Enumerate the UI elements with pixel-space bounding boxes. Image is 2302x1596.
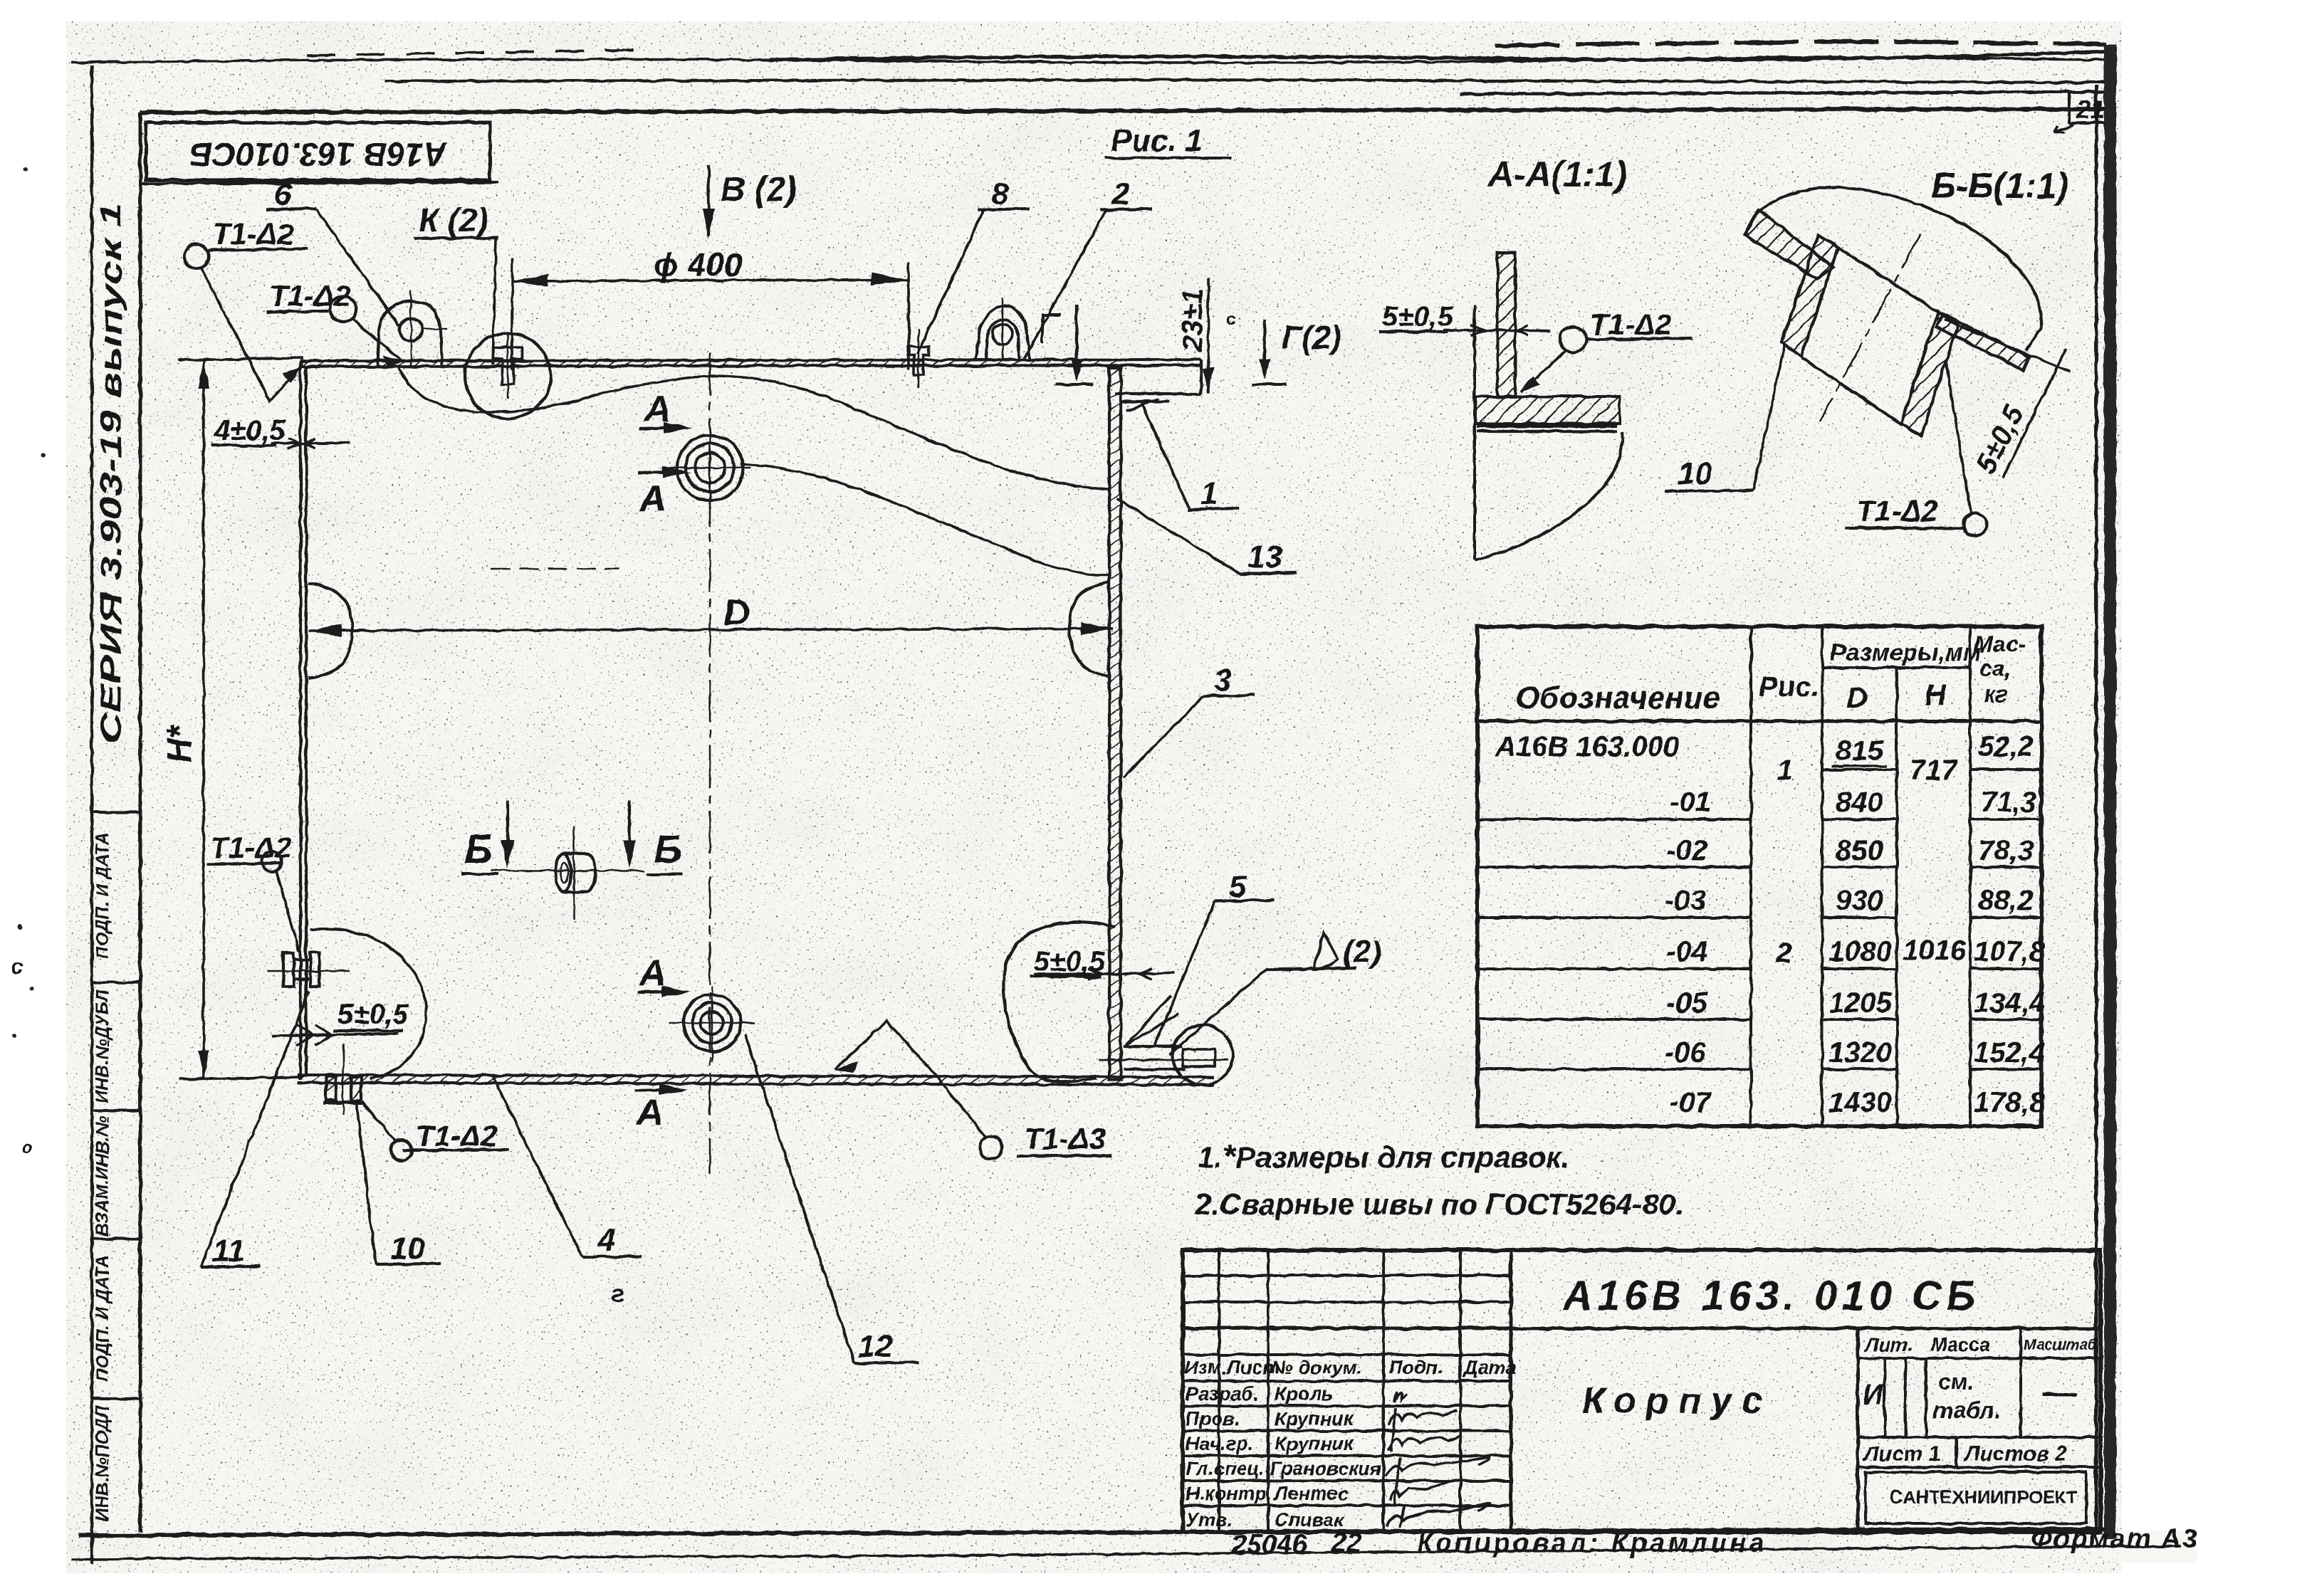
svg-text:3: 3	[1214, 663, 1231, 698]
right cells text	[1863, 1334, 2098, 1508]
svg-text:22: 22	[1331, 1528, 1361, 1558]
svg-text:о: о	[21, 1136, 33, 1157]
svg-text:Подп.: Подп.	[1388, 1357, 1443, 1378]
svg-text:В (2): В (2)	[721, 171, 797, 209]
right wall bottom blob break line	[1004, 922, 1115, 1081]
tank left wall	[300, 361, 306, 1080]
svg-text:1320: 1320	[1828, 1037, 1892, 1069]
svg-text:см.: см.	[1938, 1369, 1974, 1395]
svg-text:Размеры,мм: Размеры,мм	[1830, 639, 1981, 666]
callout 5	[1126, 869, 1275, 1045]
row lines left column	[1477, 818, 1751, 821]
svg-text:1: 1	[1200, 476, 1218, 511]
svg-text:71,3: 71,3	[1981, 787, 2036, 818]
bottom margin line	[71, 1546, 2180, 1559]
svg-text:Н*: Н*	[161, 723, 199, 763]
stray marks	[12, 167, 45, 1038]
small coupling cylinder mid tank	[491, 826, 644, 920]
svg-text:А16В 163. 010 СБ: А16В 163. 010 СБ	[1561, 1273, 1979, 1319]
B-B shell curved outline	[1746, 187, 2041, 350]
title block text	[1184, 1357, 1517, 1531]
svg-text:Листов 2: Листов 2	[1964, 1442, 2068, 1466]
svg-text:11: 11	[212, 1234, 245, 1269]
svg-text:-01: -01	[1670, 787, 1711, 818]
svg-text:Пров.: Пров.	[1186, 1408, 1240, 1429]
right lifting lug	[975, 298, 1030, 360]
svg-text:Копировал: Крамлина: Копировал: Крамлина	[1417, 1528, 1767, 1558]
dim 4+-0.5	[211, 415, 350, 448]
svg-text:с: с	[1226, 308, 1237, 329]
frame left outer edge	[90, 65, 93, 1563]
section B-B detail view	[1665, 187, 2071, 536]
callout 10	[356, 1100, 440, 1266]
verticals left part	[1218, 1250, 1220, 1532]
svg-text:D: D	[723, 592, 750, 634]
svg-text:2: 2	[1111, 177, 1130, 211]
svg-text:-06: -06	[1665, 1037, 1707, 1069]
svg-text:840: 840	[1836, 787, 1883, 818]
svg-text:Разраб.: Разраб.	[1186, 1383, 1259, 1405]
svg-text:Крупник: Крупник	[1275, 1433, 1354, 1454]
signatures squiggles	[1386, 1392, 1490, 1528]
svg-text:12: 12	[858, 1329, 893, 1364]
svg-text:1.*Размеры для справок.: 1.*Размеры для справок.	[1198, 1138, 1569, 1175]
view arrow B(2)	[702, 165, 797, 238]
section A-A upper marker	[638, 389, 692, 520]
dim H*	[161, 358, 303, 1079]
svg-text:4: 4	[597, 1222, 615, 1257]
svg-text:А16В 163.010СБ: А16В 163.010СБ	[189, 136, 448, 173]
svg-text:ИНВ.№ДУБЛ: ИНВ.№ДУБЛ	[93, 989, 113, 1103]
svg-text:кг: кг	[1984, 681, 2007, 707]
svg-text:-04: -04	[1666, 936, 1707, 967]
svg-text:Γ(2): Γ(2)	[1282, 319, 1341, 356]
left margin boxes	[92, 812, 140, 1399]
weld mark G(2) with arrow	[1252, 319, 1341, 384]
title block grid	[1183, 1250, 2100, 1532]
upper flanged hole	[669, 427, 751, 508]
svg-text:Масштаб: Масштаб	[2024, 1337, 2098, 1353]
top secondary line	[384, 80, 2106, 83]
svg-text:А-А(1:1): А-А(1:1)	[1487, 154, 1626, 194]
svg-text:930: 930	[1836, 885, 1883, 916]
svg-text:Лит.: Лит.	[1864, 1334, 1913, 1355]
svg-text:(2): (2)	[1343, 935, 1381, 970]
dim 5+-0.5 right bottom	[1030, 946, 1175, 1069]
callout 3	[1124, 663, 1255, 777]
bottom drain fitting part 10	[323, 1044, 364, 1115]
left margin rotated labels	[93, 832, 113, 1521]
B-B shell right hatched band	[1937, 313, 2029, 370]
svg-text:25046: 25046	[1231, 1530, 1308, 1560]
frame left line	[139, 112, 142, 1532]
svg-text:88,2: 88,2	[1978, 885, 2034, 916]
svg-text:1080: 1080	[1828, 936, 1892, 967]
dim D with wall arcs	[308, 582, 1114, 678]
svg-text:Т1-Δ2: Т1-Δ2	[416, 1119, 498, 1153]
svg-text:Крупник: Крупник	[1275, 1408, 1354, 1429]
svg-text:Т1-Δ2: Т1-Δ2	[1590, 308, 1672, 341]
svg-text:А: А	[638, 952, 666, 994]
frame top line	[140, 109, 2106, 112]
svg-text:4±0,5: 4±0,5	[214, 415, 286, 446]
frame bottom line	[78, 1529, 2106, 1535]
svg-text:Дата: Дата	[1463, 1357, 1517, 1378]
svg-text:21: 21	[2076, 95, 2105, 124]
svg-text:2.Сварные швы по ГОСТ5264-8: 2.Сварные швы по ГОСТ5264-80.	[1194, 1187, 1684, 1221]
parameters table	[1477, 626, 2041, 1126]
tank bottom	[298, 1075, 1214, 1085]
svg-text:Утв.: Утв.	[1186, 1509, 1233, 1531]
svg-text:ПОДП. И ДАТА: ПОДП. И ДАТА	[93, 1255, 113, 1382]
svg-text:Т1-Δ3: Т1-Δ3	[1024, 1122, 1106, 1155]
svg-text:1430: 1430	[1828, 1087, 1892, 1118]
callout 4	[492, 1075, 641, 1308]
horizontals	[1183, 1274, 1511, 1277]
lower break wavy line	[741, 464, 1111, 575]
A-A wall bar hatched	[1497, 253, 1515, 397]
svg-text:Грановския: Грановския	[1270, 1458, 1381, 1479]
B-B pipe right wall hatched	[1901, 312, 1958, 436]
table data text	[1495, 731, 2046, 1118]
table verticals	[1749, 626, 1752, 1126]
A-A bottom plate hatched	[1475, 397, 1620, 424]
middle/right verticals	[1856, 1328, 1860, 1532]
svg-text:850: 850	[1836, 835, 1883, 866]
svg-text:—: —	[2041, 1374, 2077, 1412]
svg-text:6: 6	[274, 177, 292, 212]
callout T1-D3 with zigzag	[835, 1022, 1112, 1159]
K bolt fitting right	[908, 329, 929, 388]
K bolt fitting left with circle	[465, 333, 550, 419]
B-B shell edge ext line	[1944, 319, 2071, 372]
frame right line	[2095, 85, 2098, 1532]
frame right thick bar	[2104, 44, 2116, 1539]
svg-text:Рис. 1: Рис. 1	[1111, 123, 1203, 158]
bottom margin text	[1231, 1524, 2199, 1560]
B-B dim 5+-0.5 rotated	[1970, 349, 2066, 478]
svg-text:САНТЕХНИИПРОЕКТ: САНТЕХНИИПРОЕКТ	[1890, 1486, 2078, 1508]
callout T1-D2 top second	[266, 279, 403, 367]
B-B pipe left wall hatched	[1782, 235, 1838, 356]
svg-text:8: 8	[991, 177, 1009, 211]
svg-text:815: 815	[1836, 735, 1883, 767]
section B-B markers mid tank	[461, 801, 682, 874]
left wall bottom blob break line	[310, 929, 427, 1079]
svg-text:52,2: 52,2	[1978, 731, 2034, 762]
svg-text:И: И	[1863, 1379, 1884, 1410]
svg-text:СЕРИЯ 3.903-19 выпуск 1: СЕРИЯ 3.903-19 выпуск 1	[94, 203, 127, 744]
svg-text:№ докум.: № докум.	[1271, 1357, 1362, 1378]
callout T1-D2 bottom	[362, 1102, 508, 1161]
svg-text:107,8: 107,8	[1974, 936, 2046, 967]
callout 8	[917, 177, 1030, 355]
B-B pipe axis centerline	[1820, 233, 1920, 421]
left lifting lug	[377, 290, 447, 365]
svg-text:Лист 1: Лист 1	[1863, 1442, 1940, 1466]
svg-text:Корпус: Корпус	[1582, 1380, 1772, 1422]
notes text	[1194, 1138, 1684, 1221]
callout T1-D2 top first	[184, 217, 308, 401]
svg-text:1205: 1205	[1828, 987, 1893, 1019]
svg-text:717: 717	[1910, 755, 1958, 786]
svg-text:Нач.гр.: Нач.гр.	[1186, 1433, 1253, 1454]
callout K(2)	[414, 201, 498, 364]
dim phi400	[512, 258, 909, 370]
right part grid	[1858, 1357, 2100, 1360]
svg-text:Масса: Масса	[1931, 1334, 1990, 1355]
svg-text:-07: -07	[1670, 1087, 1712, 1118]
paper top edge	[71, 57, 2106, 63]
dashed segment upper-left	[491, 568, 619, 570]
B-B callout 10	[1665, 346, 1784, 491]
svg-text:Мас-: Мас-	[1974, 631, 2026, 657]
svg-text:А: А	[635, 1092, 664, 1133]
svg-text:Гл.спец.: Гл.спец.	[1186, 1458, 1265, 1479]
weld mark G	[1042, 304, 1093, 384]
fig label Рис. 1	[1105, 123, 1232, 158]
rim lip part1	[1114, 394, 1201, 411]
svg-text:78,3: 78,3	[1978, 835, 2034, 866]
svg-text:г: г	[611, 1279, 624, 1308]
svg-text:Лентес: Лентес	[1273, 1483, 1349, 1504]
svg-text:D: D	[1846, 681, 1868, 715]
svg-text:ВЗАМ.ИНВ.№: ВЗАМ.ИНВ.№	[93, 1115, 113, 1236]
lower flanged hole	[669, 986, 755, 1062]
svg-text:10: 10	[1678, 456, 1712, 491]
weld flag (2)	[1169, 933, 1381, 1055]
callout 12	[745, 1034, 919, 1364]
table header text	[1515, 631, 2026, 715]
svg-text:ПОДП. И ДАТА: ПОДП. И ДАТА	[93, 832, 113, 959]
svg-text:2: 2	[1775, 938, 1791, 969]
callout 13	[1116, 498, 1296, 574]
svg-text:10: 10	[390, 1231, 425, 1266]
svg-text:Б-Б(1:1): Б-Б(1:1)	[1931, 166, 2068, 206]
svg-text:ИНВ.№ПОДЛ: ИНВ.№ПОДЛ	[93, 1405, 113, 1521]
svg-text:152,4: 152,4	[1974, 1037, 2045, 1069]
tank right wall hatched	[1109, 368, 1121, 1080]
svg-text:Т1-Δ2: Т1-Δ2	[1856, 494, 1938, 527]
svg-text:5±0,5: 5±0,5	[338, 999, 409, 1030]
callout 11	[201, 991, 309, 1269]
svg-text:ϕ 400: ϕ 400	[654, 246, 743, 283]
upper break wavy line	[399, 367, 1111, 490]
section A-A lower marker	[635, 952, 691, 1133]
svg-text:1: 1	[1777, 755, 1793, 786]
row lines mass column	[1970, 770, 2041, 1069]
callout T1-D2 left mid	[206, 831, 299, 951]
dim 5+-0.5 left bottom	[272, 999, 409, 1045]
svg-text:13: 13	[1247, 540, 1282, 574]
B-B callout T1-D2	[1844, 362, 1987, 536]
svg-text:Кроль: Кроль	[1275, 1383, 1333, 1405]
B-B shell left hatched band	[1744, 210, 1833, 279]
svg-text:Т1-Δ2: Т1-Δ2	[210, 831, 292, 864]
svg-text:Т1-Δ2: Т1-Δ2	[212, 217, 294, 251]
svg-text:1016: 1016	[1903, 935, 1967, 966]
callout 6	[266, 177, 399, 326]
row lines D column	[1822, 770, 1897, 1069]
underline 815	[1831, 765, 1887, 767]
bottom right pipe nozzle part 5	[1099, 1025, 1233, 1085]
svg-text:178,8: 178,8	[1974, 1087, 2046, 1118]
svg-text:К (2): К (2)	[419, 201, 488, 238]
svg-text:с: с	[11, 955, 23, 979]
svg-text:134,4: 134,4	[1974, 987, 2045, 1019]
svg-text:Изм.Лист: Изм.Лист	[1184, 1357, 1280, 1378]
svg-text:са,: са,	[1979, 656, 2011, 681]
svg-text:Спивак: Спивак	[1275, 1509, 1344, 1531]
svg-text:А: А	[638, 478, 666, 520]
B-B pipe bore top edge	[1838, 248, 1940, 313]
svg-text:Б: Б	[464, 826, 493, 871]
svg-text:Н: Н	[1925, 678, 1947, 711]
santehniiproekt box	[1866, 1472, 2086, 1523]
dim 23+-1	[1177, 278, 1237, 394]
svg-text:Обозначение: Обозначение	[1515, 681, 1720, 715]
svg-text:-03: -03	[1665, 885, 1706, 916]
svg-text:Б: Б	[654, 826, 682, 871]
svg-text:5: 5	[1229, 869, 1247, 904]
tank center line	[709, 352, 711, 1175]
A-A break blob	[1473, 305, 1476, 560]
svg-text:Н.контр.: Н.контр.	[1186, 1483, 1272, 1504]
page number box	[2068, 93, 2071, 124]
svg-text:-02: -02	[1666, 835, 1707, 866]
callout 1	[1141, 403, 1239, 511]
callout 2	[1024, 177, 1152, 359]
svg-text:5±0,5: 5±0,5	[1382, 301, 1454, 332]
top-left inverted stamp box	[140, 122, 498, 184]
svg-text:Формат А3: Формат А3	[2031, 1524, 2199, 1554]
tank lid (top flange)	[300, 359, 1201, 394]
left nozzle part 11	[268, 952, 350, 987]
svg-text:-05: -05	[1666, 987, 1708, 1019]
header lines	[1822, 666, 1970, 669]
svg-text:А16В 163.000: А16В 163.000	[1495, 731, 1679, 762]
svg-text:23±1: 23±1	[1177, 288, 1208, 352]
svg-text:табл.: табл.	[1933, 1397, 2000, 1423]
B-B pipe bore bottom edge	[1801, 357, 1903, 425]
svg-text:Рис.: Рис.	[1759, 671, 1819, 703]
section A-A detail view	[1378, 253, 1692, 560]
